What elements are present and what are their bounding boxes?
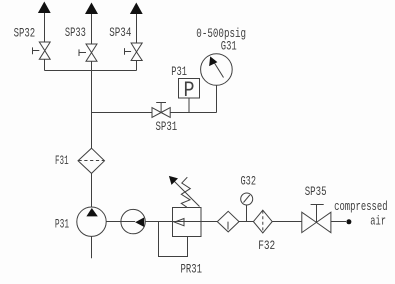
svg-text:SP33: SP33 [65, 25, 86, 40]
wire PR31 to lubricator [201, 221, 217, 223]
exhaust arrow above SP32 [38, 2, 51, 14]
transducer U1 P-box [179, 79, 200, 99]
filter F31 [78, 148, 105, 173]
gauge G32 [241, 193, 253, 205]
wire pump to check valve [106, 221, 121, 223]
wire SP31 to gauge branch [170, 112, 216, 114]
svg-text:G32: G32 [241, 174, 257, 189]
wire SP32 to bus [44, 59, 46, 70]
spring [181, 177, 190, 207]
wire pump drain stub [91, 236, 93, 258]
valve SP31 [152, 108, 170, 118]
svg-text:PR31: PR31 [181, 262, 203, 277]
wire arrow to SP34 valve [136, 14, 138, 43]
exhaust arrow above SP34 [130, 3, 143, 15]
wire SP34 to bus [136, 61, 138, 71]
svg-text:P31: P31 [55, 217, 69, 232]
svg-text:0-500psig: 0-500psig [196, 26, 246, 41]
regulator PR31 [173, 208, 202, 237]
wire arrow to SP32 valve [44, 13, 46, 42]
exhaust arrow above SP33 [85, 3, 98, 15]
svg-text:F32: F32 [258, 238, 275, 253]
valve SP34 [131, 43, 142, 61]
svg-text:air: air [370, 214, 386, 229]
svg-text:F31: F31 [55, 153, 69, 168]
wire P-box stem [188, 98, 190, 113]
svg-text:SP32: SP32 [14, 26, 36, 41]
wire bus manifold [45, 70, 137, 72]
check valve [121, 209, 145, 233]
gauge G31 [201, 54, 233, 86]
svg-text:compressed: compressed [334, 199, 388, 214]
valve SP33 [86, 44, 97, 61]
adjust arrow [175, 182, 200, 207]
wire gauge stem [216, 85, 218, 112]
lubricator [217, 211, 239, 232]
wire main vertical line [91, 71, 93, 149]
svg-text:SP35: SP35 [305, 184, 327, 199]
svg-text:SP31: SP31 [156, 119, 178, 134]
svg-text:P31: P31 [171, 64, 187, 79]
filter F32 [253, 210, 272, 233]
wire F31 to pump [91, 173, 93, 207]
valve SP35 [302, 212, 331, 232]
wire G32 stem [246, 205, 248, 222]
wire arrow to SP33 valve [91, 14, 93, 44]
pump P31 [77, 207, 106, 236]
node compressed air supply [346, 219, 351, 224]
wire check valve to PR31 [145, 221, 172, 223]
wire F32 to SP35 [272, 221, 302, 223]
valve SP32 [39, 42, 50, 59]
wire lubricator to F32 [239, 221, 253, 223]
svg-text:SP34: SP34 [109, 25, 131, 40]
wire SP33 to bus [91, 61, 93, 70]
wire SP35 to supply node [331, 221, 346, 223]
wire feedback loop [159, 222, 188, 257]
wire branch to SP31 [92, 112, 153, 114]
